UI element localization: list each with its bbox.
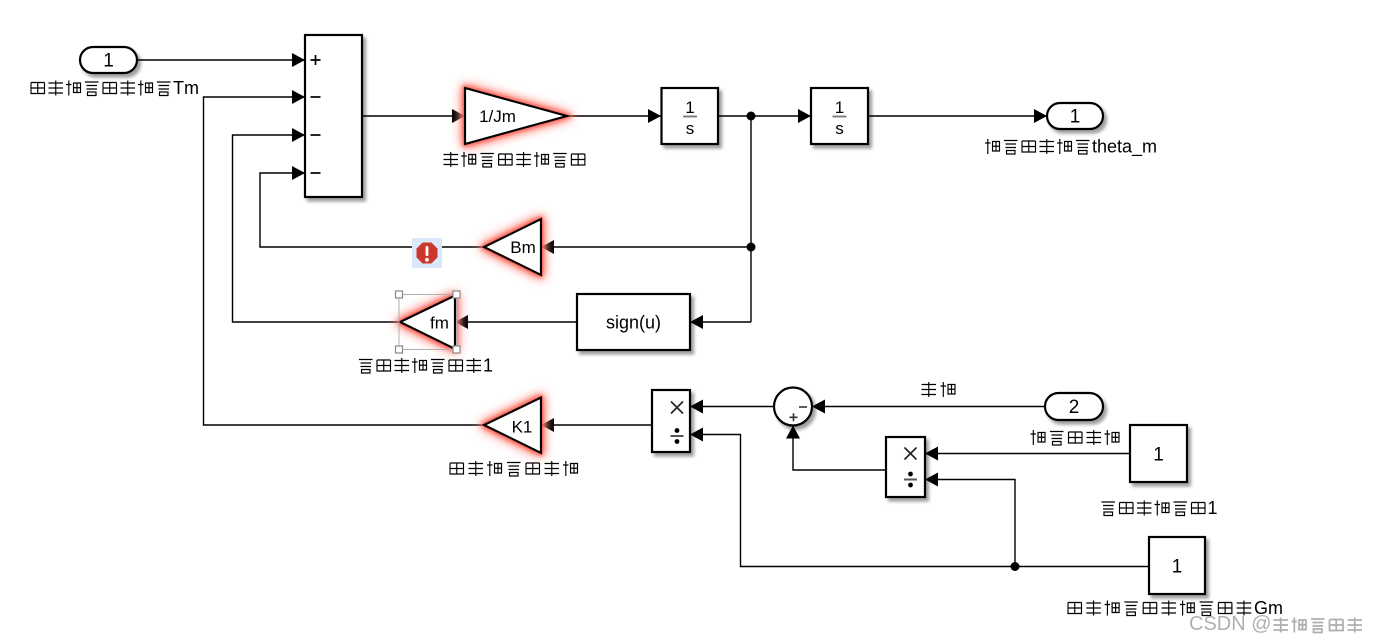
svg-text:1/Jm: 1/Jm [479,107,516,126]
svg-text:1: 1 [103,51,114,72]
svg-text:1: 1 [1208,498,1218,518]
svg-text:Tm: Tm [173,78,199,98]
svg-text:theta_m: theta_m [1092,137,1157,158]
svg-text:fm: fm [430,314,449,333]
svg-text:Bm: Bm [510,238,536,257]
svg-text:s: s [835,119,844,138]
svg-text:1: 1 [483,356,493,376]
svg-text:K1: K1 [512,418,533,437]
svg-text:s: s [686,119,695,138]
svg-text:1: 1 [1070,107,1081,128]
svg-text:1: 1 [835,98,844,117]
svg-text:1: 1 [1172,557,1183,578]
svg-text:2: 2 [1069,397,1080,418]
svg-text:1: 1 [1153,445,1164,466]
svg-text:sign(u): sign(u) [606,313,661,333]
svg-text:CSDN @: CSDN @ [1189,613,1272,635]
svg-text:1: 1 [685,98,694,117]
